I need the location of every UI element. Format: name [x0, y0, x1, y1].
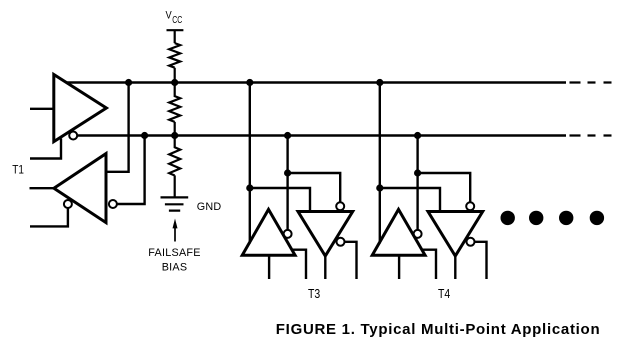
inverting bubble on T3 driver output — [284, 230, 292, 238]
inverting bubble on T3 receiver input — [336, 202, 344, 210]
wire: bus A down to T3 driver — [249, 83, 251, 244]
wire: T3 driver enable — [291, 250, 306, 279]
inverting bubble on T1 driver output (to bus B) — [69, 132, 77, 140]
node: junction bus B / T1 receiver — [141, 132, 148, 139]
svg-text:T1: T1 — [12, 162, 24, 176]
wire: bus B down to T3 driver bubble — [286, 136, 288, 230]
wire: bus A down to T4 driver — [379, 83, 381, 244]
transceiver T4 — [372, 79, 486, 301]
node: T3 A-net branch — [246, 184, 253, 191]
node: junction bus B / T4 — [414, 132, 421, 139]
driver T1 (right-pointing triangle) — [54, 75, 107, 142]
wire: T3 driver input stub — [268, 255, 270, 279]
receiver T1 (left-pointing triangle) — [54, 154, 106, 223]
node: junction bus A / T1 receiver — [125, 79, 132, 86]
wire: bus line A dashed continuation — [570, 81, 612, 83]
power terminal VCC — [167, 30, 184, 43]
wire: T4 receiver output stub — [454, 256, 456, 279]
wire: T4 driver input stub — [398, 255, 400, 279]
wire: T1 receiver enable — [30, 208, 68, 226]
resistor R2 (bus A to bus B) — [169, 83, 180, 136]
node: junction bus B / resistor chain — [171, 132, 178, 139]
enable bubble on T4 receiver — [467, 238, 475, 246]
wire: T1 receiver inverting input from bus B — [117, 136, 145, 205]
svg-text:GND: GND — [197, 201, 222, 213]
node: junction bus A / resistor chain — [171, 79, 178, 86]
wire: T1 driver enable — [30, 139, 61, 159]
node: junction bus B / T3 — [284, 132, 291, 139]
enable bubble on T1 receiver — [64, 200, 72, 208]
wire: bus B down to T4 driver bubble — [416, 136, 418, 230]
svg-text:CC: CC — [172, 15, 182, 26]
ground — [161, 197, 189, 210]
transceiver T3 — [242, 79, 356, 301]
wire: B-net branch to T3 receiver inverting bubble — [288, 173, 341, 202]
failsafe bias pointer arrow — [174, 227, 176, 242]
svg-text:FAILSAFE: FAILSAFE — [148, 247, 200, 259]
inverting bubble on T4 receiver input — [466, 202, 474, 210]
wire: A-net branch to T3 receiver input — [250, 188, 310, 212]
resistor R3 (bus B to ground) — [169, 136, 180, 198]
svg-text:BIAS: BIAS — [162, 262, 188, 274]
wire: T1 receiver output — [30, 187, 54, 189]
inverting bubble on T4 driver output — [414, 230, 422, 238]
wire: T3 receiver output stub — [324, 256, 326, 279]
wire: A-net branch to T4 receiver input — [380, 188, 440, 212]
wire: B-net branch to T4 receiver inverting bubble — [418, 173, 471, 202]
resistor R1 (VCC to bus A) — [169, 43, 180, 82]
inverting bubble on T1 receiver input — [109, 200, 117, 208]
wire: bus line A (top differential line) — [66, 81, 566, 83]
wire: T1 driver input — [30, 108, 54, 110]
driver T3 (up-pointing triangle) — [242, 209, 295, 255]
node: T4 A-net branch — [376, 184, 383, 191]
node: T4 B-net branch — [414, 169, 421, 176]
receiver T3 (down-pointing triangle) — [298, 212, 353, 257]
wire: bus line B dashed continuation — [570, 134, 612, 136]
wire: T1 receiver non-inverting input from bus A — [106, 83, 129, 172]
driver T4 (up-pointing triangle) — [372, 209, 425, 255]
wire: T4 driver enable — [421, 250, 436, 279]
node: junction bus A / T4 — [376, 79, 383, 86]
wire: T4 receiver enable — [475, 242, 487, 279]
svg-text:T4: T4 — [438, 286, 450, 301]
continuation dots (more transceivers) — [501, 211, 605, 225]
node: junction bus A / T3 — [246, 79, 253, 86]
svg-text:T3: T3 — [308, 286, 320, 301]
receiver T4 (down-pointing triangle) — [428, 212, 483, 257]
node: T3 B-net branch — [284, 169, 291, 176]
wire: T3 receiver enable — [345, 242, 357, 279]
svg-text:FIGURE 1. Typical Multi-Point: FIGURE 1. Typical Multi-Point Applicatio… — [276, 321, 601, 338]
enable bubble on T3 receiver — [337, 238, 345, 246]
wire: bus line B (bottom differential line) — [78, 134, 566, 136]
